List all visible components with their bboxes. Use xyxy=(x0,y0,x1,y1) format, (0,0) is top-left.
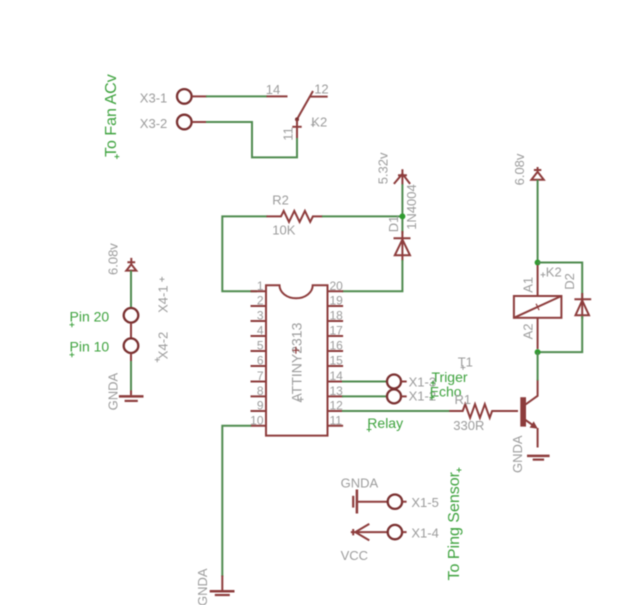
net label Pin 20 xyxy=(70,309,110,328)
svg-text:Relay: Relay xyxy=(367,415,403,431)
IC pin stubs left xyxy=(251,291,267,426)
svg-text:Pin 10: Pin 10 xyxy=(70,339,110,355)
svg-text:17: 17 xyxy=(330,324,344,338)
ground GNDA X1-5 (rotated) xyxy=(341,475,388,513)
svg-text:9: 9 xyxy=(257,399,264,413)
svg-text:6: 6 xyxy=(257,354,264,368)
svg-text:ATTINY2313: ATTINY2313 xyxy=(288,322,304,402)
svg-text:11: 11 xyxy=(330,413,343,427)
wire D2 branch top xyxy=(538,263,583,299)
net label Relay xyxy=(367,415,403,432)
connector X1-3 xyxy=(387,375,436,390)
ground GNDA emitter xyxy=(510,435,550,473)
svg-text:X4-1: X4-1 xyxy=(155,285,170,312)
supply 6.08v left xyxy=(105,243,136,275)
IC U1 ATTINY2313 xyxy=(266,285,328,435)
supply VCC X1-4 (arrow left) xyxy=(341,524,388,563)
svg-text:X1-4: X1-4 xyxy=(411,525,438,540)
svg-text:Triger: Triger xyxy=(432,369,468,385)
wire D2 branch bottom xyxy=(538,316,583,352)
connector X3-2 xyxy=(140,115,207,131)
label K2 coil xyxy=(541,265,562,280)
resistor R2 xyxy=(267,193,323,222)
label T1 xyxy=(458,354,473,370)
wire X4-2 to ground xyxy=(130,361,132,391)
svg-text:2: 2 xyxy=(257,294,264,308)
wire X3-2 to K2 pin 11 xyxy=(206,122,297,157)
svg-text:5.32v: 5.32v xyxy=(376,152,391,184)
svg-text:GNDA: GNDA xyxy=(341,475,379,490)
svg-text:16: 16 xyxy=(330,339,344,353)
wire pin 13 to X1-2 xyxy=(342,395,387,397)
connector X4-1 xyxy=(124,277,171,339)
svg-text:6.08v: 6.08v xyxy=(512,153,527,185)
svg-text:K2: K2 xyxy=(546,265,562,280)
wire junction to collector xyxy=(537,352,539,380)
wire pin 12 to R1 xyxy=(342,410,450,412)
wire pin 10 to ground xyxy=(222,426,251,577)
wire X3-1 to K2 pin 14 xyxy=(206,95,267,97)
junction dot bottom xyxy=(535,349,541,355)
svg-text:D2: D2 xyxy=(562,273,577,290)
svg-text:A1: A1 xyxy=(520,277,535,293)
svg-text:14: 14 xyxy=(266,82,280,97)
connector X3-1 xyxy=(140,89,207,105)
svg-text:15: 15 xyxy=(330,354,344,368)
svg-text:X3-1: X3-1 xyxy=(140,90,167,105)
svg-text:11: 11 xyxy=(281,127,296,141)
svg-text:1: 1 xyxy=(257,279,264,293)
ground GNDA left xyxy=(105,373,143,411)
svg-text:14: 14 xyxy=(330,369,344,383)
label K2 xyxy=(311,114,327,129)
svg-text:K2: K2 xyxy=(311,114,327,129)
svg-text:GNDA: GNDA xyxy=(105,373,120,411)
svg-text:3: 3 xyxy=(257,309,264,323)
IC pin stubs right xyxy=(328,291,344,426)
svg-text:X3-2: X3-2 xyxy=(140,116,167,131)
junction dot top xyxy=(535,260,541,266)
supply 6.08v right xyxy=(512,153,544,185)
svg-text:20: 20 xyxy=(330,279,344,293)
svg-text:10: 10 xyxy=(250,413,264,427)
pin numbers right xyxy=(330,279,344,428)
svg-text:19: 19 xyxy=(330,294,344,308)
svg-text:6.08v: 6.08v xyxy=(105,243,120,275)
svg-text:R2: R2 xyxy=(272,193,289,208)
wire supply to relay junction xyxy=(537,180,539,263)
junction dot xyxy=(399,213,405,219)
relay coil K2 xyxy=(514,265,562,349)
relay contact K2 xyxy=(267,91,328,138)
resistor R1 xyxy=(449,392,518,418)
svg-text:12: 12 xyxy=(330,399,344,413)
wire junction to supply xyxy=(401,184,403,217)
svg-text:A2: A2 xyxy=(520,323,535,339)
connector X4-2 xyxy=(124,332,171,362)
svg-text:Pin 20: Pin 20 xyxy=(70,309,110,325)
svg-text:1N4004: 1N4004 xyxy=(404,184,419,230)
wire junction to D1 xyxy=(401,216,403,233)
svg-text:X1-5: X1-5 xyxy=(411,495,438,510)
svg-text:10K: 10K xyxy=(272,223,295,238)
pin numbers left xyxy=(250,279,264,428)
diode D2 xyxy=(562,273,591,318)
diode D1 xyxy=(386,216,410,261)
svg-text:VCC: VCC xyxy=(341,548,368,563)
svg-text:330R: 330R xyxy=(453,418,484,433)
net label Triger xyxy=(431,369,468,386)
wire D1 to pin 20 xyxy=(342,260,402,291)
connector X1-5 xyxy=(388,495,439,510)
wire R2 loop to pin 1 xyxy=(222,216,267,291)
svg-text:To Fan ACv: To Fan ACv xyxy=(103,74,120,157)
svg-text:5: 5 xyxy=(257,339,264,353)
svg-text:D1: D1 xyxy=(386,216,401,233)
svg-text:X4-2: X4-2 xyxy=(155,332,170,359)
net label Pin 10 xyxy=(70,339,110,358)
connector X1-4 xyxy=(388,525,439,541)
svg-text:GNDA: GNDA xyxy=(195,568,210,605)
svg-text:7: 7 xyxy=(257,369,264,383)
svg-text:GNDA: GNDA xyxy=(510,435,525,473)
net label Echo xyxy=(430,384,462,400)
svg-text:8: 8 xyxy=(257,384,264,398)
net label To Fan ACv xyxy=(103,74,120,159)
connector X1-2 xyxy=(387,389,436,404)
wire R2 to junction xyxy=(322,215,402,217)
net label To Ping Sensor xyxy=(446,468,463,581)
svg-text:13: 13 xyxy=(330,384,344,398)
wire supply to X4-1 xyxy=(130,271,132,309)
svg-text:R1: R1 xyxy=(455,392,472,407)
svg-text:To Ping Sensor: To Ping Sensor xyxy=(446,471,463,580)
supply 5.32v xyxy=(376,152,411,184)
svg-text:18: 18 xyxy=(330,309,344,323)
wire pin 14 to X1-3 xyxy=(342,381,387,383)
svg-text:12: 12 xyxy=(314,82,328,97)
svg-text:4: 4 xyxy=(257,324,264,338)
transistor T1 xyxy=(520,380,538,448)
ground GNDA bottom left xyxy=(195,568,234,605)
